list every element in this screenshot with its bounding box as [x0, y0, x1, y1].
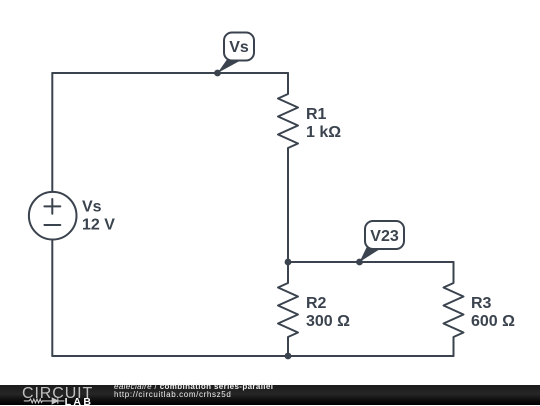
svg-text:R2: R2: [306, 295, 327, 312]
svg-text:600 Ω: 600 Ω: [471, 313, 515, 330]
voltage source minus sign: [44, 224, 60, 226]
junction dot R1/R2/middle wire: [285, 259, 292, 266]
svg-text:Vs: Vs: [229, 39, 249, 56]
svg-text:LAB: LAB: [65, 395, 94, 405]
wire top-left vertical: [51, 73, 53, 192]
logo diode: [47, 398, 64, 404]
svg-text:300 Ω: 300 Ω: [306, 313, 350, 330]
svg-text:R1: R1: [306, 106, 327, 123]
node label V23 box: [365, 221, 404, 249]
credit line 2: [114, 391, 231, 399]
label tail V23: [360, 247, 381, 263]
svg-text:R3: R3: [471, 295, 492, 312]
junction dot bottom: [285, 353, 292, 360]
svg-text:1 kΩ: 1 kΩ: [306, 124, 341, 141]
voltage source plus sign: [44, 199, 60, 214]
svg-text:V23: V23: [370, 228, 399, 245]
node dot Vs: [214, 70, 221, 77]
resistor R1: [278, 73, 298, 262]
CircuitLab logo: [0, 385, 100, 406]
wire top horizontal: [52, 72, 288, 74]
logo resistor zigzag: [24, 399, 47, 403]
resistor R2: [278, 262, 298, 356]
wire middle horizontal: [288, 261, 454, 263]
voltage source V1 circle: [29, 192, 77, 240]
resistor R3: [444, 262, 464, 356]
node label Vs box: [224, 33, 254, 61]
label tail Vs: [218, 58, 241, 73]
node dot V23: [356, 259, 363, 266]
credit line 1: [114, 383, 273, 391]
wire left lower vertical: [51, 240, 53, 357]
wire bottom horizontal: [52, 355, 453, 357]
svg-text:Vs: Vs: [82, 199, 102, 216]
svg-text:12 V: 12 V: [82, 217, 115, 234]
footer bar: [0, 385, 540, 406]
